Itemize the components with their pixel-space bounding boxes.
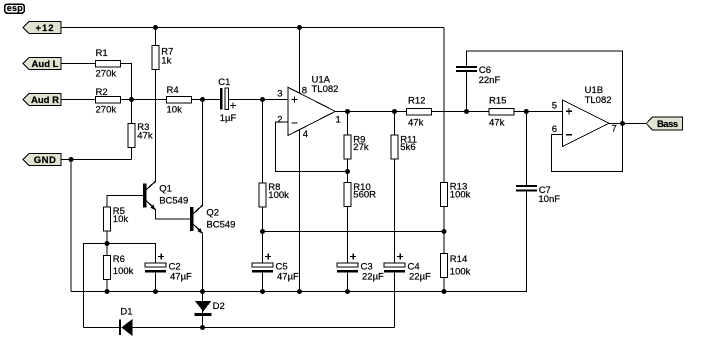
input tag Aud L [23,58,61,70]
diode D2 [195,301,225,316]
resistor R2 [96,87,121,116]
svg-text:R6: R6 [113,254,125,265]
wire ground rail [71,291,444,293]
svg-text:4: 4 [303,129,308,140]
junction lower rail/D2 [200,325,205,330]
wire node A to R4 [132,99,167,101]
junction rail/C5 [260,289,265,294]
wire C1 to pin3 [228,99,288,101]
resistor R3 [128,122,153,147]
wire R7 top [155,28,157,46]
capacitor C2 [145,254,192,283]
input tag Aud R [23,94,61,106]
wire R9 top [347,112,349,136]
junction rail/C2 [153,289,158,294]
wire GND down-left [70,160,72,292]
wire R10 to C3 [347,207,349,264]
junction node A [129,97,134,102]
capacitor C3 [337,254,384,283]
svg-text:560R: 560R [353,190,376,201]
svg-text:+12: +12 [35,23,54,34]
wire C5 top [262,232,264,264]
capacitor C7 [516,185,560,205]
wire output U1B [609,123,646,125]
diode D1 [119,307,133,337]
junction out/R9 [345,109,350,114]
svg-text:27k: 27k [353,142,369,153]
wire through D2 [202,292,204,328]
wire R5/R6 node line [84,244,156,328]
wire Q2 emitter down [202,234,204,292]
capacitor C6 [456,65,500,86]
resistor R15 [489,96,514,129]
svg-text:Bass: Bass [657,119,678,130]
wire pin4 to rail [299,130,301,292]
svg-text:5k6: 5k6 [400,142,415,153]
svg-text:10k: 10k [167,105,183,116]
svg-text:TL082: TL082 [312,84,339,95]
junction rail/C3 [345,289,350,294]
capacitor C1 [218,77,236,124]
svg-text:BC549: BC549 [159,195,188,206]
junction bias/R13/R14 [442,229,447,234]
resistor R13 [441,182,471,207]
svg-text:8: 8 [302,86,307,97]
svg-text:R12: R12 [408,96,425,107]
wire R9 to R10 [347,160,349,183]
junction pin2/R9/R10 [345,169,350,174]
output tag Bass [646,117,682,130]
svg-text:1µF: 1µF [220,113,237,124]
wire C6 top loop [467,51,623,124]
svg-text:47k: 47k [408,117,424,128]
svg-text:47k: 47k [137,130,153,141]
junction rail/pin4 [297,289,302,294]
op-amp U1A [277,74,341,140]
wire C6 node up [466,72,468,112]
junction out/R11 [392,109,397,114]
wire R5 to Q1 base [107,196,144,208]
svg-text:100k: 100k [268,190,289,201]
svg-text:R2: R2 [96,87,108,98]
junction rail/R6 [105,289,110,294]
transistor Q1 [143,181,188,210]
wire R2 to node A [121,99,132,101]
wire node to R14 [443,232,445,254]
wire C2 bottom [155,272,157,292]
svg-text:22µF: 22µF [362,272,384,283]
wire +12 down to R13 [443,28,445,183]
junction R15/C7 [524,109,529,114]
wire R8 to bias line [262,207,264,232]
resistor R11 [391,134,417,159]
transistor Q2 [190,205,235,234]
svg-text:R1: R1 [96,48,108,59]
svg-text:2: 2 [277,115,282,126]
svg-text:5: 5 [552,100,557,111]
svg-text:22µF: 22µF [409,272,431,283]
svg-text:Q1: Q1 [159,184,172,195]
svg-text:10nF: 10nF [538,194,560,205]
junction R5/R6 [105,241,110,246]
capacitor C5 [252,254,299,283]
wire pin8 [299,28,301,94]
resistor R7 [152,46,173,70]
svg-text:7: 7 [612,123,617,134]
svg-text:R14: R14 [450,254,467,265]
wire R4 to C1 [192,99,221,101]
svg-text:100k: 100k [450,190,471,201]
wire pin6 feedback [552,124,623,172]
wire R3 bottom [131,148,133,160]
capacitor C4 [384,254,431,283]
wire +12 rail [61,27,444,29]
svg-text:100k: 100k [450,267,471,278]
resistor R10 [344,182,376,206]
svg-text:1k: 1k [161,55,171,66]
wire R1 to node A [121,64,132,100]
wire R8 top [262,100,264,184]
junction rail/R14 [442,289,447,294]
svg-text:Aud R: Aud R [31,95,59,106]
resistor R9 [344,134,369,159]
wire GND tag [61,159,132,161]
svg-text:6: 6 [552,124,557,135]
svg-text:GND: GND [34,155,57,166]
svg-text:TL082: TL082 [585,95,612,106]
svg-text:Aud L: Aud L [32,59,59,70]
wire Q2 collector up [202,100,204,206]
resistor R14 [441,254,471,278]
resistor R4 [167,85,192,115]
junction U1B output [620,121,625,126]
resistor R1 [96,48,121,79]
junction +12/R7 [153,25,158,30]
svg-text:D1: D1 [120,307,132,318]
wire Aud R to R2 [61,99,96,101]
wire node A to R3 [131,100,133,124]
resistor R5 [104,206,129,231]
wire lower rail left [84,327,120,329]
svg-text:esp: esp [7,3,23,13]
wire C7 bottom to rail [444,192,526,292]
svg-text:10k: 10k [113,214,129,225]
svg-text:47µF: 47µF [170,272,192,283]
wire C3 bottom [347,272,349,292]
wire output U1A [336,111,407,113]
svg-text:270k: 270k [96,68,117,79]
junction C1/R8 [260,97,265,102]
svg-text:R4: R4 [167,85,179,96]
svg-text:Q2: Q2 [206,208,219,219]
input tag +12 [23,22,61,34]
resistor R6 [104,254,134,279]
input tag GND [23,154,61,166]
svg-text:270k: 270k [96,105,117,116]
wire C5 bottom [262,272,264,292]
wire Aud L to R1 [61,63,96,65]
junction +12/pin8 [297,25,302,30]
svg-text:3: 3 [277,89,282,100]
wire R15 to pin5 [514,111,562,113]
wire R11 top [394,112,396,136]
esp logo [5,3,25,13]
wire R13 to node [443,207,445,232]
svg-text:100k: 100k [113,266,134,277]
resistor R8 [259,182,289,207]
wire R12 to C6 node [432,111,490,113]
wire R11 to C4 [394,160,396,264]
svg-text:BC549: BC549 [206,220,235,231]
svg-text:C1: C1 [218,77,230,88]
wire R7 to Q1 collector [155,70,157,182]
junction R12/C6 [464,109,469,114]
wire R5 bottom [106,231,108,256]
junction rail/Q2/D2 [200,289,205,294]
wire bias line [263,231,445,233]
wire lower rail mid [133,327,395,329]
wire pin2 feedback [276,122,348,172]
svg-text:47k: 47k [489,117,505,128]
resistor R12 [407,96,432,129]
wire Q1 emitter to Q2 base [156,210,192,220]
junction R8/bias [260,229,265,234]
junction R4/Q2 [200,97,205,102]
junction GND tag [69,157,74,162]
wire C7 node down [525,112,527,186]
wire C4 bottom to low rail [394,272,396,328]
svg-text:22nF: 22nF [479,75,501,86]
wire R6 bottom [106,280,108,292]
svg-text:D2: D2 [213,301,225,312]
op-amp U1B [552,85,617,146]
wire R14 bottom [443,278,445,292]
svg-text:47µF: 47µF [277,272,299,283]
svg-text:1: 1 [336,115,341,126]
svg-text:R15: R15 [489,96,506,107]
